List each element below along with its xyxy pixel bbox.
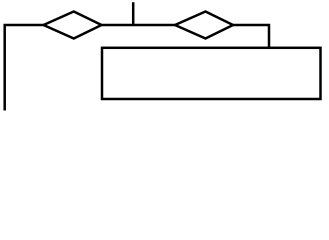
entity box: [102, 48, 321, 99]
relationship diamond D1: [44, 12, 102, 39]
wire D1 to D2: [102, 24, 176, 27]
relationship diamond D2: [175, 12, 233, 39]
wire stub top: [132, 2, 135, 26]
wire D2 to entity box: [233, 25, 269, 48]
wire left L-shape: [5, 25, 44, 111]
